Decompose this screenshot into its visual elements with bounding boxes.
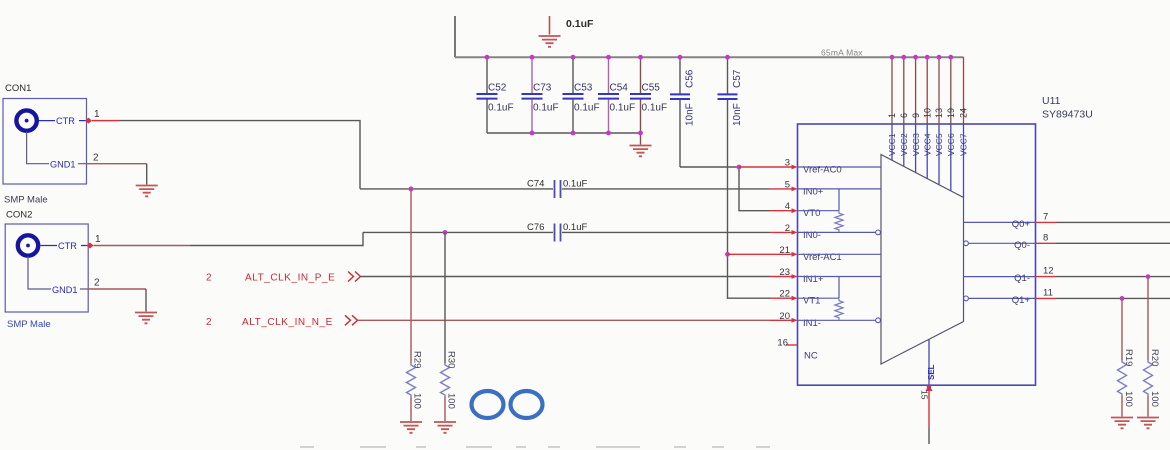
internal wire IN0- to mux bubble xyxy=(798,231,876,233)
svg-text:VCC7: VCC7 xyxy=(959,133,969,156)
svg-text:0.1uF: 0.1uF xyxy=(533,103,559,114)
pin 20 IN1- stub xyxy=(770,318,798,323)
internal wire IN1- to mux bubble xyxy=(798,319,876,321)
pin 4 VT0 stub xyxy=(770,208,798,213)
CON2 coax circle xyxy=(18,235,38,255)
internal wire IN0+ to mux xyxy=(798,188,882,190)
capacitor C52 0.1uF xyxy=(477,57,514,133)
internal wire VT1 xyxy=(798,297,840,299)
junction node on bottom rail x=573.0 xyxy=(571,131,576,136)
svg-text:0.1uF: 0.1uF xyxy=(566,18,594,30)
svg-text:0.1uF: 0.1uF xyxy=(642,103,668,114)
junction node C57 on bus xyxy=(725,55,730,60)
junction node Q1+ / R19 xyxy=(1120,296,1125,301)
svg-text:0.1uF: 0.1uF xyxy=(610,103,636,114)
wire: ALT_CLK_IN_N_E to IN1- xyxy=(358,319,770,321)
svg-text:C57: C57 xyxy=(732,69,743,88)
wire: CON1 pin2 stub xyxy=(87,163,147,165)
ground (R20) xyxy=(1137,418,1159,429)
svg-text:16: 16 xyxy=(777,338,788,349)
CON1 CTR pin wire xyxy=(39,120,87,122)
op-amp/mux U11 outline xyxy=(798,124,1036,385)
svg-text:23: 23 xyxy=(779,267,790,278)
junction node C56 on bus xyxy=(678,55,683,60)
pin 21 Vref-AC1 stub xyxy=(728,252,798,257)
mux input bubble IN0- xyxy=(876,230,881,235)
svg-text:C53: C53 xyxy=(574,83,593,94)
pin 3 Vref-AC0 stub xyxy=(739,165,798,170)
internal wire Vref-AC1 to mux xyxy=(798,253,882,255)
svg-text:SMP Male: SMP Male xyxy=(7,319,51,330)
wire: drop to ground from rail xyxy=(640,133,642,145)
svg-text:20: 20 xyxy=(779,311,790,322)
ground (top 0.1uF) xyxy=(539,36,561,47)
capacitor C57 10nF xyxy=(718,57,744,254)
wire: net into C76 xyxy=(363,231,553,233)
svg-text:VCC2: VCC2 xyxy=(899,133,909,156)
svg-text:Vref-AC1: Vref-AC1 xyxy=(803,252,842,263)
wire Q1+ stub xyxy=(1036,297,1057,299)
CON1 coax circle xyxy=(16,110,36,130)
CON2 port diamond xyxy=(87,243,94,249)
capacitor C74 0.1uF xyxy=(527,179,587,199)
CON2 GND wire inside xyxy=(28,256,88,289)
svg-text:Q0-: Q0- xyxy=(1014,240,1030,251)
svg-text:7: 7 xyxy=(1043,211,1048,222)
wire Q1+ out xyxy=(1056,297,1170,299)
VCC pin 24 wire xyxy=(963,57,965,197)
capacitor C76 0.1uF xyxy=(527,222,587,242)
svg-text:NC: NC xyxy=(804,351,818,362)
svg-text:R30: R30 xyxy=(446,351,457,368)
junction node VCC2 on bus xyxy=(901,55,906,60)
svg-text:10nF: 10nF xyxy=(685,103,696,126)
svg-text:R29: R29 xyxy=(412,351,423,368)
svg-text:0.1uF: 0.1uF xyxy=(563,179,587,190)
junction node C53 on bus xyxy=(571,55,576,60)
annotation circle 2 xyxy=(511,391,543,418)
wire: junction drop to VT0 xyxy=(739,167,770,211)
svg-text:C52: C52 xyxy=(488,83,507,94)
termination resistor VT0 to IN0- xyxy=(835,211,843,232)
wire IN1+ to VT1 tap xyxy=(838,277,840,299)
CON1 port diamond xyxy=(85,118,92,124)
svg-text:3: 3 xyxy=(785,158,790,169)
svg-text:VT0: VT0 xyxy=(803,208,820,219)
svg-text:2: 2 xyxy=(785,223,790,234)
svg-text:10: 10 xyxy=(922,108,932,118)
ground (R30) xyxy=(434,422,456,433)
ground (CON1 pin2) xyxy=(136,186,158,197)
svg-text:CTR: CTR xyxy=(56,116,75,126)
svg-text:ALT_CLK_IN_N_E: ALT_CLK_IN_N_E xyxy=(242,317,333,328)
junction node at C57/Vref-AC1 xyxy=(725,252,730,257)
svg-text:4: 4 xyxy=(785,201,790,212)
svg-text:6: 6 xyxy=(899,113,909,118)
annotation circle 1 xyxy=(472,391,504,418)
output Q0- internal wire xyxy=(964,241,1036,246)
svg-text:VT1: VT1 xyxy=(803,296,820,307)
svg-text:C73: C73 xyxy=(533,83,552,94)
VCC pin 10 wire xyxy=(926,57,928,178)
resistor R29 100 xyxy=(407,189,423,421)
output Q1+ internal wire xyxy=(964,296,1036,301)
svg-text:1: 1 xyxy=(94,109,100,120)
SEL internal wire xyxy=(928,339,930,385)
junction node C55 on bus xyxy=(638,55,643,60)
junction node VCC5 on bus xyxy=(937,55,942,60)
wire Q0+ stub xyxy=(1036,221,1057,223)
resistor R20 100 xyxy=(1144,277,1161,417)
wire SEL down xyxy=(928,391,930,444)
svg-text:CON1: CON1 xyxy=(5,83,31,94)
wire: C74 to IN0+ xyxy=(562,188,770,190)
junction node VCC4 on bus xyxy=(925,55,930,60)
junction node on bottom rail x=608.5 xyxy=(606,131,611,136)
capacitor (cropped) wire at top xyxy=(549,16,551,35)
svg-text:CTR: CTR xyxy=(58,241,77,251)
svg-text:1: 1 xyxy=(95,234,101,245)
wire Q0- stub xyxy=(1036,242,1057,244)
svg-text:C56: C56 xyxy=(685,69,696,88)
SEL pin arrow xyxy=(926,385,933,391)
svg-text:VCC5: VCC5 xyxy=(934,133,944,156)
svg-text:10nF: 10nF xyxy=(732,103,743,126)
svg-text:C55: C55 xyxy=(642,83,661,94)
svg-text:C74: C74 xyxy=(527,179,544,190)
junction node VCC3 on bus xyxy=(913,55,918,60)
VCC pin 13 wire xyxy=(938,57,940,185)
svg-text:100: 100 xyxy=(412,393,423,409)
svg-text:8: 8 xyxy=(1043,232,1048,243)
wire: VCC bus riser top-left xyxy=(454,16,456,57)
wire: VCC horizontal bus xyxy=(455,56,964,58)
junction node at C56/Vref-AC0 xyxy=(737,165,742,170)
svg-text:2: 2 xyxy=(93,153,99,164)
svg-text:9: 9 xyxy=(911,113,921,118)
wire: CON2 pin1 run, step up xyxy=(190,232,363,245)
ground (CON2 pin2) xyxy=(135,313,157,324)
svg-text:IN0-: IN0- xyxy=(803,230,821,241)
junction node R30 top xyxy=(443,230,448,235)
wire: CON1 pin1 stub xyxy=(92,120,119,122)
svg-text:0.1uF: 0.1uF xyxy=(488,103,514,114)
svg-text:IN1+: IN1+ xyxy=(803,274,824,285)
wire: CON2 pin2 stub xyxy=(88,288,146,290)
output Q1- internal wire xyxy=(964,276,1036,278)
wire: ALT_CLK_IN_P_E to IN1+ xyxy=(361,276,770,278)
svg-text:2: 2 xyxy=(94,278,100,289)
wire: net into C74 xyxy=(360,188,553,190)
pin 22 VT1 stub xyxy=(770,296,798,301)
junction node R29 top xyxy=(409,187,414,192)
pin 16 NC stub xyxy=(786,344,798,346)
svg-text:15: 15 xyxy=(920,390,930,400)
wire: C76 to IN0- xyxy=(562,231,770,233)
wire Q0- out xyxy=(1056,242,1170,244)
svg-text:VCC1: VCC1 xyxy=(887,133,897,156)
svg-text:2: 2 xyxy=(206,273,212,284)
svg-text:GND1: GND1 xyxy=(50,160,76,170)
svg-text:22: 22 xyxy=(779,289,790,300)
wire Q1- out xyxy=(1056,276,1170,278)
svg-text:IN1-: IN1- xyxy=(803,318,821,329)
internal wire IN1+ to mux xyxy=(798,276,882,278)
svg-text:11: 11 xyxy=(1043,287,1053,298)
capacitor C55 0.1uF xyxy=(630,57,667,133)
VCC pin 9 wire xyxy=(915,57,917,172)
svg-text:24: 24 xyxy=(959,108,969,118)
CON2 CTR pin wire xyxy=(41,245,89,247)
svg-text:2: 2 xyxy=(206,317,212,328)
wire: C57 continues to VT1 xyxy=(728,254,771,298)
svg-text:100: 100 xyxy=(1149,391,1160,407)
svg-text:GND1: GND1 xyxy=(52,285,78,295)
VCC pin 1 wire xyxy=(891,57,893,160)
net label ALT_CLK_IN_P_E xyxy=(206,272,361,284)
resistor R30 100 xyxy=(441,232,457,421)
svg-text:0.1uF: 0.1uF xyxy=(563,222,587,233)
svg-text:IN0+: IN0+ xyxy=(803,186,824,197)
pin 5 IN0+ stub xyxy=(770,187,798,192)
svg-text:12: 12 xyxy=(1043,266,1054,277)
U11 mux trapezoid xyxy=(881,155,964,365)
svg-text:VCC3: VCC3 xyxy=(911,133,921,156)
capacitor C53 0.1uF xyxy=(563,57,600,133)
svg-text:21: 21 xyxy=(779,245,790,256)
junction node SEL xyxy=(927,385,931,389)
CON1 GND wire inside xyxy=(27,132,87,164)
wire: CON1 pin1 run to x=360 xyxy=(119,121,360,189)
svg-text:Q1+: Q1+ xyxy=(1012,295,1031,306)
wire: CON1 pin2 down xyxy=(146,164,148,185)
wire: CON2 pin2 down xyxy=(145,289,147,312)
svg-text:VCC4: VCC4 xyxy=(922,133,932,156)
svg-text:Vref-AC0: Vref-AC0 xyxy=(803,165,842,176)
connector CON2 body xyxy=(5,224,88,312)
svg-text:0.1uF: 0.1uF xyxy=(574,103,600,114)
VCC pin 19 wire xyxy=(950,57,952,191)
svg-text:CON2: CON2 xyxy=(6,210,32,221)
wire Q0+ out xyxy=(1056,221,1170,223)
svg-text:100: 100 xyxy=(446,393,457,409)
ground (C52-C55 rail) xyxy=(630,146,652,157)
capacitor C73 0.1uF xyxy=(522,57,559,133)
pin 2 IN0- stub xyxy=(770,230,798,235)
svg-text:C76: C76 xyxy=(527,222,544,233)
mux input bubble IN1- xyxy=(876,318,881,323)
termination resistor VT1 to IN1- xyxy=(835,299,843,320)
junction node on bottom rail x=640.5 xyxy=(638,131,643,136)
junction node Q1- / R20 xyxy=(1146,274,1151,279)
VCC pin 6 wire xyxy=(903,57,905,166)
svg-text:ALT_CLK_IN_P_E: ALT_CLK_IN_P_E xyxy=(245,273,335,284)
connector CON1 body xyxy=(3,99,87,185)
cropped caption marks at bottom edge xyxy=(300,446,770,448)
junction node C52 on bus xyxy=(485,55,490,60)
junction node C73 on bus xyxy=(530,55,535,60)
junction node VCC1 on bus xyxy=(890,55,895,60)
svg-text:C54: C54 xyxy=(610,83,629,94)
junction node VCC6 on bus xyxy=(948,55,953,60)
wire IN0+ to VT0 tap xyxy=(838,189,840,211)
wire: CON2 pin1 stub xyxy=(94,245,191,247)
internal wire VT0 xyxy=(798,210,840,212)
wire: bottom rail joining C52-C55 xyxy=(487,132,641,134)
svg-text:SY89473U: SY89473U xyxy=(1042,109,1093,121)
svg-text:Q1-: Q1- xyxy=(1014,273,1030,284)
svg-text:R19: R19 xyxy=(1123,349,1134,366)
svg-text:Q0+: Q0+ xyxy=(1012,219,1031,230)
junction node on bottom rail x=532.0 xyxy=(530,131,535,136)
wire Q1- stub xyxy=(1036,276,1057,278)
svg-text:VCC6: VCC6 xyxy=(946,133,956,156)
pin 23 IN1+ stub xyxy=(770,274,798,279)
svg-text:1: 1 xyxy=(887,113,897,118)
internal wire Vref-AC0 to mux xyxy=(798,166,882,168)
svg-text:65mA Max: 65mA Max xyxy=(821,48,863,58)
wire: C56 to Vref-AC0 elbow xyxy=(680,166,739,168)
svg-text:5: 5 xyxy=(785,179,790,190)
capacitor C54 0.1uF xyxy=(598,57,635,133)
svg-text:100: 100 xyxy=(1123,391,1134,407)
resistor R19 100 xyxy=(1118,298,1135,416)
svg-text:SEL: SEL xyxy=(927,364,936,380)
junction node C54 on bus xyxy=(606,55,611,60)
ground (R29) xyxy=(400,422,422,433)
svg-text:R20: R20 xyxy=(1149,349,1160,366)
svg-text:19: 19 xyxy=(946,108,956,118)
ground (R19) xyxy=(1111,418,1133,429)
output Q0+ internal wire xyxy=(964,221,1036,223)
net label ALT_CLK_IN_N_E xyxy=(206,315,358,328)
svg-text:13: 13 xyxy=(934,108,944,118)
svg-text:SMP Male: SMP Male xyxy=(4,195,48,206)
svg-text:U11: U11 xyxy=(1042,95,1061,107)
capacitor C56 10nF xyxy=(670,57,696,167)
